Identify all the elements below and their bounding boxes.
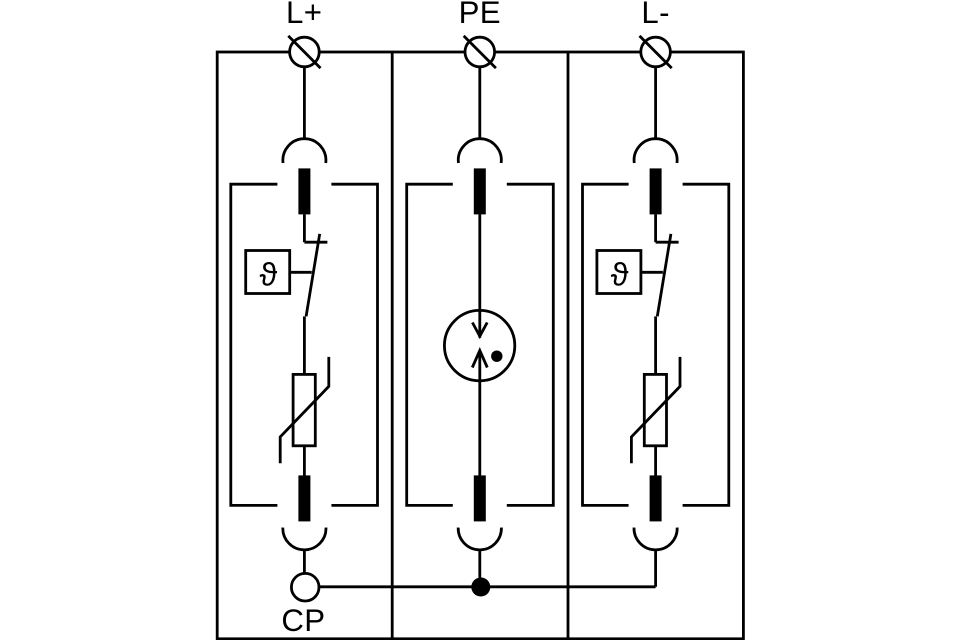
plug-in contact pin bottom L+ <box>298 475 310 521</box>
module outline box 2 <box>407 184 554 505</box>
thermal disconnector box L+ <box>246 251 290 294</box>
thermal disconnector box L- <box>597 251 641 294</box>
gas discharge tube upper arrowhead <box>472 323 487 337</box>
wire socket down L- <box>654 549 657 587</box>
svg-text:ϑ: ϑ <box>611 256 629 292</box>
varistor strike L+ <box>280 357 329 463</box>
wire switch to varistor L- <box>654 316 657 374</box>
plug-in contact socket arc bottom PE <box>458 528 501 550</box>
bottom common wire <box>319 585 656 588</box>
wire pin to switch L+ <box>303 214 306 242</box>
plug-in contact socket arc top L+ <box>283 139 326 163</box>
plug-in contact pin top PE <box>474 168 486 214</box>
wire L- terminal to plug contact <box>654 67 657 140</box>
wire socket to junction PE <box>478 549 481 587</box>
module outline box 1 <box>231 184 378 505</box>
switch lever L- <box>657 234 671 317</box>
switch fixed contact tick L- <box>656 241 679 244</box>
varistor body L+ <box>293 374 315 445</box>
varistor body L- <box>644 374 666 445</box>
wire pin into gas discharge tube PE <box>478 214 481 337</box>
gas discharge tube circle PE <box>444 310 514 380</box>
gas discharge tube lower arrowhead <box>472 351 487 368</box>
link thermal disconnector to lever L+ <box>290 271 312 274</box>
wire switch to varistor L+ <box>303 316 306 374</box>
svg-text:ϑ: ϑ <box>260 256 278 292</box>
plug-in contact socket arc bottom L+ <box>283 528 326 550</box>
switch lever L+ <box>306 234 320 317</box>
junction dot PE <box>471 578 490 597</box>
wire pin to switch L- <box>654 214 657 242</box>
module outline box 3 <box>583 184 729 505</box>
wire gas discharge tube to bottom pin PE <box>478 351 481 477</box>
section divider 1 <box>391 52 394 639</box>
wire PE terminal to plug contact <box>478 67 481 140</box>
plug-in contact pin top L+ <box>298 168 310 214</box>
link thermal disconnector to lever L- <box>641 271 663 274</box>
plug-in contact pin top L- <box>650 168 662 214</box>
wire L+ terminal to plug contact <box>303 67 306 140</box>
plug-in contact socket arc top PE <box>458 139 501 163</box>
svg-text:PE: PE <box>459 0 501 30</box>
terminal PE <box>464 36 496 68</box>
switch fixed contact tick L+ <box>304 241 327 244</box>
svg-text:CP: CP <box>281 603 325 638</box>
plug-in contact socket arc bottom L- <box>634 528 677 550</box>
outer enclosure frame <box>217 52 743 639</box>
wire socket to CP contact <box>303 549 306 573</box>
wire varistor to bottom pin L- <box>654 446 657 476</box>
terminal L- <box>640 36 672 68</box>
terminal L+ <box>288 36 320 68</box>
svg-text:L+: L+ <box>286 0 322 30</box>
gas discharge tube dot <box>491 351 502 362</box>
CP contact circle <box>291 573 319 601</box>
svg-text:L-: L- <box>641 0 670 30</box>
wire varistor to bottom pin L+ <box>303 446 306 476</box>
plug-in contact pin bottom L- <box>650 475 662 521</box>
section divider 2 <box>567 52 570 639</box>
varistor strike L- <box>631 357 680 463</box>
plug-in contact socket arc top L- <box>634 139 677 163</box>
plug-in contact pin bottom PE <box>474 475 486 521</box>
